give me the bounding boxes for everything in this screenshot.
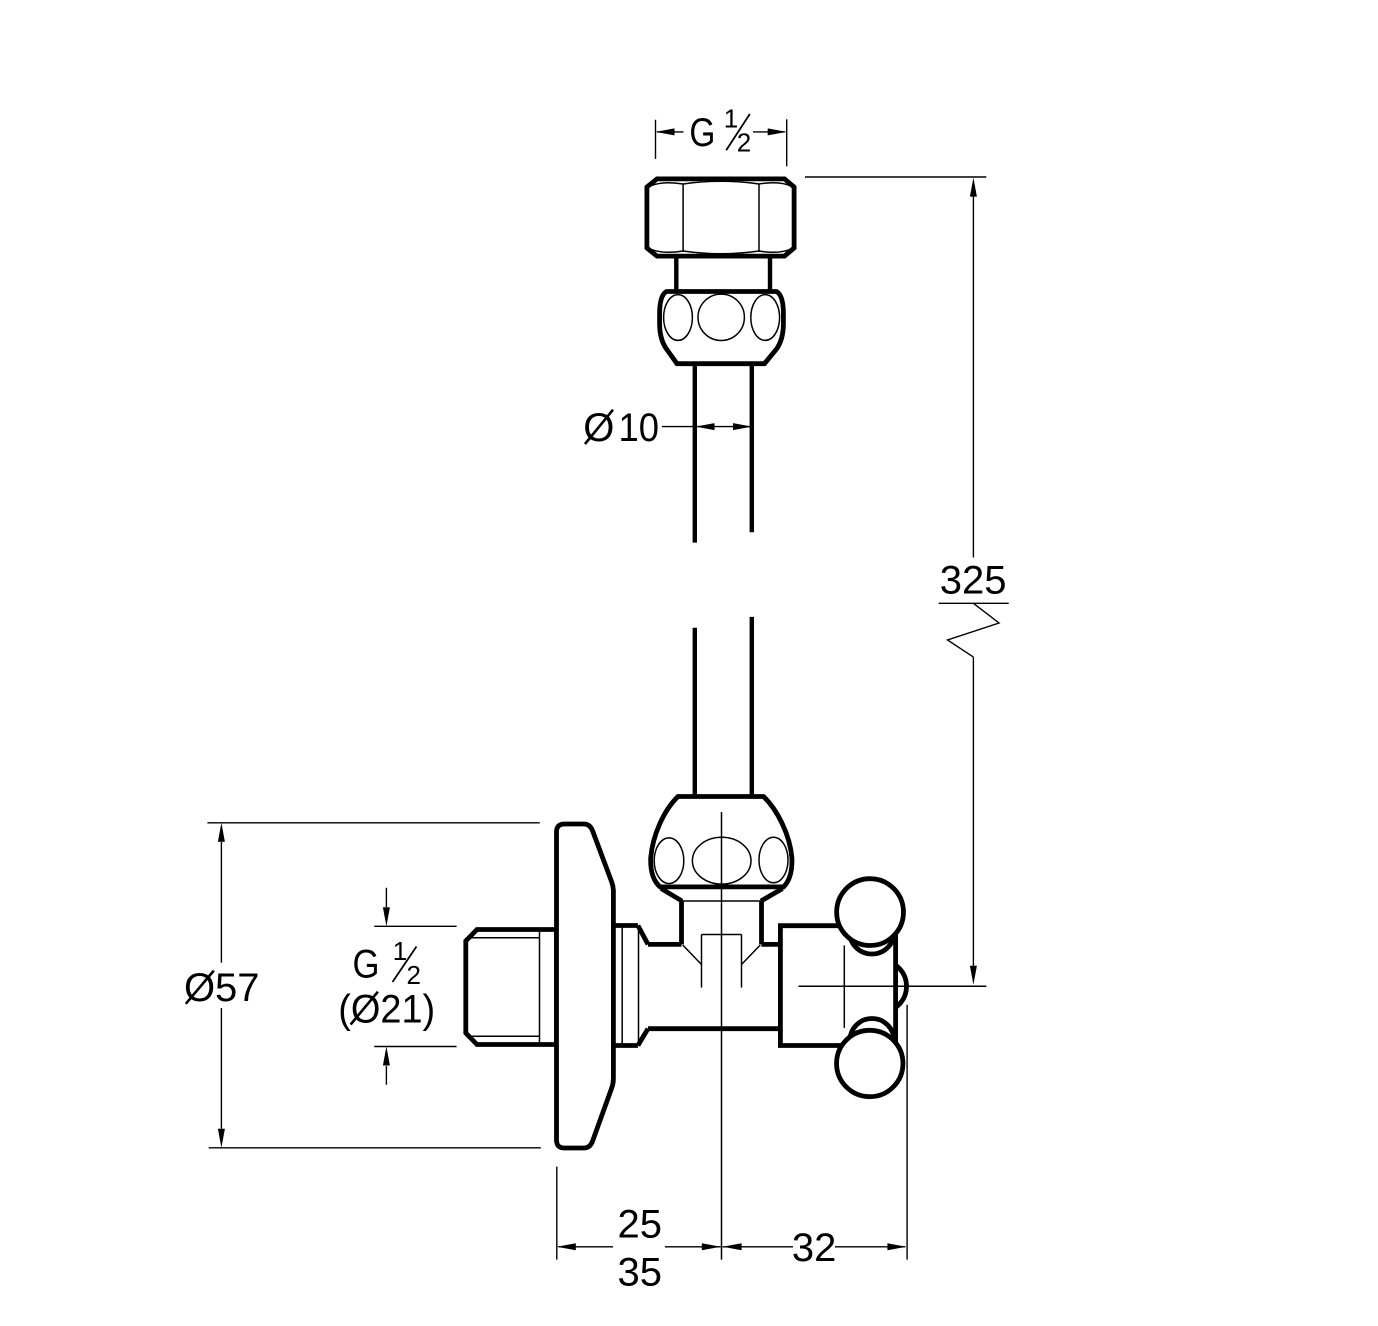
- dimension 325: [805, 177, 1009, 985]
- handle bottom wing neck: [850, 1019, 894, 1063]
- svg-text:G: G: [353, 943, 380, 987]
- svg-text:(O21): (O21): [338, 987, 435, 1031]
- label G 1/2 (Ø21): [338, 888, 456, 1085]
- svg-text:2: 2: [406, 960, 420, 990]
- centerline vertical (pipe axis): [721, 812, 723, 1260]
- svg-text:1: 1: [393, 936, 407, 966]
- svg-text:25: 25: [618, 1202, 663, 1246]
- valve body: [613, 926, 780, 1046]
- dimensions 25 / 35 and 32: [557, 1005, 907, 1295]
- handle stem line: [843, 945, 845, 1028]
- centerline horizontal (handle axis): [799, 985, 987, 987]
- svg-text:2: 2: [737, 128, 751, 158]
- compression nut (lower, on valve): [651, 797, 792, 887]
- svg-text:325: 325: [940, 559, 1007, 603]
- handle bottom wing knob: [837, 1030, 903, 1096]
- valve neck below compression nut: [661, 889, 783, 945]
- dimension G 1/2 (top thread): [656, 103, 787, 166]
- threaded nipple G 1/2: [466, 930, 557, 1045]
- svg-text:35: 35: [618, 1251, 663, 1295]
- riser pipe upper segment: [695, 364, 752, 543]
- riser pipe lower segment: [695, 617, 752, 796]
- svg-text:57: 57: [215, 966, 260, 1010]
- valve seat (internal lines): [683, 935, 761, 988]
- svg-text:32: 32: [792, 1226, 837, 1270]
- handle body: [780, 926, 895, 1046]
- compression nut (upper): [660, 292, 784, 364]
- dimension Ø57: [184, 823, 541, 1148]
- neck between hex nut and compression nut: [676, 259, 770, 293]
- svg-text:G: G: [689, 111, 715, 155]
- svg-text:10: 10: [619, 406, 660, 450]
- wall flange: [557, 824, 614, 1148]
- handle front wing (bulge): [855, 960, 907, 1012]
- hex union nut: [647, 179, 794, 256]
- handle top wing neck: [849, 909, 894, 954]
- handle top wing knob: [837, 879, 904, 946]
- dimension Ø10: [583, 406, 752, 450]
